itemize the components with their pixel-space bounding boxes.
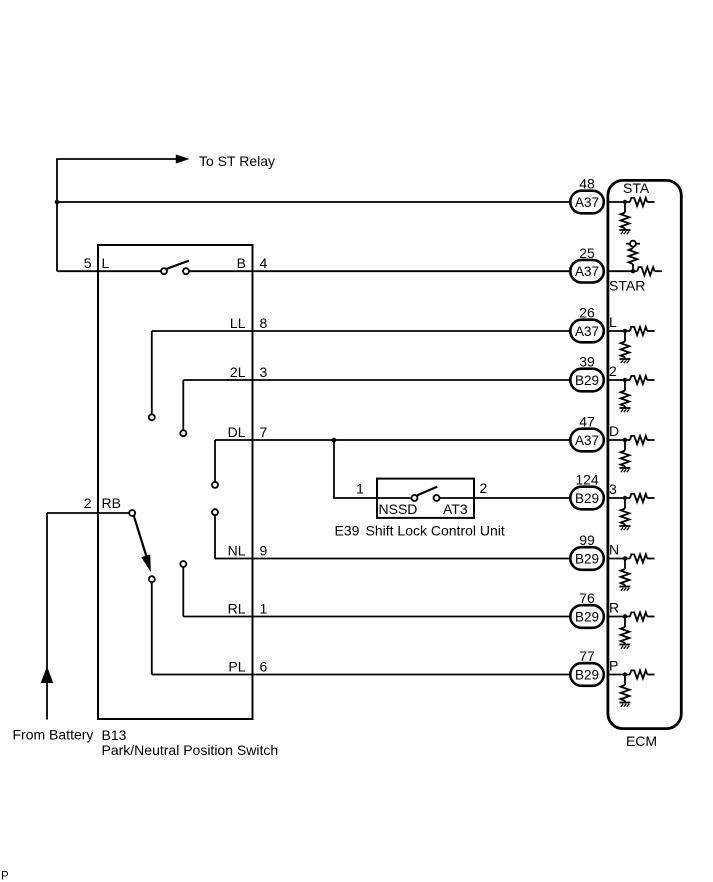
- arrow From Battery: [41, 666, 54, 683]
- wire ECM internal row pin 99: [607, 558, 631, 560]
- node ECM junction pin 47: [623, 438, 627, 442]
- terminal NSSD label: [379, 501, 418, 517]
- pin 99 number: [579, 532, 595, 548]
- switch contact PL: [149, 576, 155, 582]
- svg-text:77: 77: [579, 648, 595, 664]
- switch contact LL: [149, 414, 155, 420]
- connector A37 pin 48: [570, 191, 604, 214]
- wire ECM internal row pin 124: [607, 497, 631, 499]
- svg-text:99: 99: [579, 532, 595, 548]
- svg-text:ECM: ECM: [626, 733, 657, 749]
- terminal STA label ECM: [623, 180, 650, 196]
- svg-text:B29: B29: [575, 491, 599, 506]
- switch lever L-B: [167, 261, 189, 269]
- wire From Battery vertical: [46, 513, 48, 720]
- switch contact right (B): [183, 268, 189, 274]
- svg-text:AT3: AT3: [443, 501, 468, 517]
- label ECM: [626, 733, 657, 749]
- svg-text:B13: B13: [102, 727, 127, 743]
- wire From Battery to RB contact: [47, 512, 129, 514]
- resistor ECM pulldown pin 48: [621, 202, 630, 230]
- label B13: [102, 727, 127, 743]
- resistor ECM series pin 39: [630, 376, 655, 384]
- wire ECM internal row pin 39: [607, 379, 631, 381]
- node ECM junction pin 26: [623, 329, 627, 333]
- wire RL vertical branch: [182, 567, 184, 616]
- wire DL to shift lock pin 1: [334, 440, 376, 498]
- switch contact 2L: [180, 430, 186, 436]
- terminal PL label: [228, 659, 245, 675]
- node ECM junction pin 124: [623, 496, 627, 500]
- terminal P label ECM: [609, 658, 618, 674]
- wire ECM internal row pin 47: [607, 439, 631, 441]
- node STAR supply terminal circle: [626, 241, 640, 247]
- wire ECM internal row pin 25: [607, 270, 634, 272]
- svg-text:39: 39: [579, 354, 595, 370]
- pin 4 label: [260, 255, 268, 271]
- resistor ECM pulldown pin 124: [621, 498, 630, 526]
- connector A37 pin 25: [570, 260, 604, 283]
- svg-text:STAR: STAR: [609, 278, 645, 294]
- switch contact NSSD: [412, 495, 418, 501]
- terminal B label: [237, 255, 246, 271]
- IC ECM box: [608, 180, 681, 728]
- svg-text:NSSD: NSSD: [379, 501, 418, 517]
- terminal D label ECM: [609, 423, 619, 439]
- pin 6 label: [260, 659, 268, 675]
- pin 76 number: [579, 590, 595, 606]
- svg-text:2: 2: [480, 480, 488, 496]
- pin 2 label: [84, 495, 92, 511]
- connector B29 pin 77: [570, 663, 604, 686]
- resistor ECM series pin 99: [630, 554, 655, 562]
- svg-text:N: N: [609, 542, 619, 558]
- wire to ST Relay: [57, 159, 178, 271]
- page marker P: [1, 871, 9, 882]
- ground pin 77: [619, 703, 630, 707]
- svg-text:3: 3: [260, 364, 268, 380]
- pin 25 number: [579, 245, 595, 261]
- pin 7 label: [260, 424, 268, 440]
- pin 124 number: [575, 472, 599, 488]
- wire DL row to ECM: [215, 439, 571, 441]
- svg-text:From Battery: From Battery: [13, 727, 94, 743]
- label To ST Relay: [199, 153, 275, 169]
- terminal R label ECM: [609, 600, 619, 616]
- node DL junction: [332, 438, 337, 443]
- wire shift lock internal left: [377, 497, 411, 499]
- wire ECM internal row pin 76: [607, 616, 631, 618]
- terminal LL label: [230, 315, 246, 331]
- terminal STAR label ECM: [609, 278, 645, 294]
- wire 2L row to ECM: [183, 379, 571, 381]
- terminal L label ECM: [609, 314, 617, 330]
- wire STA row to ECM pin 48: [57, 201, 571, 203]
- box E39 Shift Lock Control Unit: [377, 479, 474, 518]
- svg-text:NL: NL: [228, 543, 246, 559]
- svg-text:48: 48: [579, 176, 595, 192]
- node ECM junction pin 48: [623, 200, 627, 204]
- wire DL vertical branch: [214, 440, 216, 482]
- ground pin 26: [619, 359, 630, 363]
- wire ECM internal row pin 77: [607, 674, 631, 676]
- resistor ECM pulldown pin 76: [621, 617, 630, 645]
- pin 8 label: [260, 315, 268, 331]
- wire ECM internal row pin 26: [607, 330, 631, 332]
- switch contact left (L): [161, 268, 167, 274]
- ground pin 124: [619, 526, 630, 530]
- terminal 2L label: [230, 364, 246, 380]
- svg-text:1: 1: [260, 601, 268, 617]
- ground pin 48: [619, 230, 630, 234]
- pin 1 label: [260, 601, 268, 617]
- resistor ECM series pin 77: [630, 670, 655, 678]
- svg-text:P: P: [1, 871, 9, 882]
- wire switch contact B to ECM pin 25: [189, 270, 571, 272]
- svg-text:5: 5: [84, 255, 92, 271]
- pin 3 label: [260, 364, 268, 380]
- wire ECM internal row pin 48: [607, 201, 631, 203]
- ground pin 47: [619, 468, 630, 472]
- svg-text:3: 3: [609, 481, 617, 497]
- terminal AT3 label: [443, 501, 468, 517]
- resistor ECM pulldown pin 99: [621, 559, 630, 587]
- terminal RL label: [228, 601, 246, 617]
- switch contact RL: [180, 561, 186, 567]
- svg-text:8: 8: [260, 315, 268, 331]
- node ECM junction pin 25: [631, 269, 635, 273]
- pin 5 label: [84, 255, 92, 271]
- arrow to ST Relay: [176, 155, 190, 164]
- switch contact DL: [212, 482, 218, 488]
- svg-text:2: 2: [609, 363, 617, 379]
- svg-text:B29: B29: [575, 551, 599, 566]
- switch contact NL: [212, 509, 218, 515]
- node ECM junction pin 99: [623, 556, 627, 560]
- svg-text:To ST Relay: To ST Relay: [199, 153, 275, 169]
- pin 26 number: [579, 305, 595, 321]
- svg-text:LL: LL: [230, 315, 246, 331]
- connector B29 pin 99: [570, 547, 604, 570]
- node ECM junction pin 76: [623, 614, 627, 618]
- svg-text:47: 47: [579, 414, 595, 430]
- wire RL row to ECM: [183, 616, 571, 618]
- label Park/Neutral Position Switch: [102, 742, 279, 758]
- connector A37 pin 47: [570, 429, 604, 452]
- terminal NL label: [228, 543, 246, 559]
- svg-text:25: 25: [579, 245, 595, 261]
- pin 2 label shift lock: [480, 480, 488, 496]
- terminal L label: [102, 255, 110, 271]
- svg-text:STA: STA: [623, 180, 650, 196]
- pin 1 label shift lock: [356, 481, 364, 497]
- switch contact RB: [129, 510, 135, 516]
- svg-text:R: R: [609, 600, 619, 616]
- switch B13 Park/Neutral Position Switch box: [98, 245, 253, 719]
- wire LL vertical branch: [151, 331, 153, 414]
- label From Battery: [13, 727, 94, 743]
- svg-text:DL: DL: [228, 424, 246, 440]
- connector A37 pin 26: [570, 320, 604, 343]
- resistor ECM pullup pin 25: [629, 247, 638, 272]
- wire pin5 L to switch contact: [57, 270, 161, 272]
- svg-text:D: D: [609, 423, 619, 439]
- wire shift lock internal right: [440, 497, 474, 499]
- resistor ECM pulldown pin 47: [621, 440, 630, 468]
- svg-text:RL: RL: [228, 601, 246, 617]
- svg-text:4: 4: [260, 255, 268, 271]
- svg-text:A37: A37: [575, 264, 599, 279]
- label Shift Lock Control Unit: [366, 523, 505, 539]
- wire PL row to ECM: [152, 674, 571, 676]
- resistor ECM series pin 76: [630, 612, 655, 620]
- svg-text:Park/Neutral Position Switch: Park/Neutral Position Switch: [102, 742, 279, 758]
- svg-text:9: 9: [260, 543, 268, 559]
- svg-text:2L: 2L: [230, 364, 246, 380]
- svg-text:Shift Lock Control Unit: Shift Lock Control Unit: [366, 523, 505, 539]
- resistor ECM pulldown pin 77: [621, 675, 630, 703]
- ground pin 76: [619, 645, 630, 649]
- wire PL vertical branch: [151, 582, 153, 674]
- wire 2L vertical branch: [182, 380, 184, 430]
- ground pin 39: [619, 408, 630, 412]
- wire NL vertical branch: [214, 515, 216, 558]
- svg-text:2: 2: [84, 495, 92, 511]
- terminal DL label: [228, 424, 246, 440]
- pin 77 number: [579, 648, 595, 664]
- svg-text:6: 6: [260, 659, 268, 675]
- svg-text:124: 124: [575, 472, 599, 488]
- resistor ECM series pin 26: [630, 327, 655, 335]
- terminal 3 label ECM: [609, 481, 617, 497]
- resistor ECM pulldown pin 26: [621, 331, 630, 359]
- wire shift lock pin 2 to ECM pin 124: [475, 497, 571, 499]
- terminal RB label: [102, 495, 121, 511]
- pin 9 label: [260, 543, 268, 559]
- svg-text:7: 7: [260, 424, 268, 440]
- terminal 2 label ECM: [609, 363, 617, 379]
- svg-text:PL: PL: [228, 659, 245, 675]
- wire LL row to ECM: [152, 330, 571, 332]
- pin 48 number: [579, 176, 595, 192]
- resistor ECM series pin 124: [630, 494, 655, 502]
- svg-text:L: L: [609, 314, 617, 330]
- label E39: [335, 523, 360, 539]
- switch lever RB wiper: [134, 516, 151, 572]
- svg-text:RB: RB: [102, 495, 121, 511]
- svg-text:A37: A37: [575, 324, 599, 339]
- connector B29 pin 76: [570, 605, 604, 628]
- svg-text:B29: B29: [575, 609, 599, 624]
- wire NL row to ECM: [215, 558, 571, 560]
- svg-text:26: 26: [579, 305, 595, 321]
- svg-text:A37: A37: [575, 433, 599, 448]
- node ECM junction pin 39: [623, 378, 627, 382]
- connector B29 pin 39: [570, 369, 604, 392]
- connector B29 pin 124: [570, 487, 604, 510]
- node junction at ST relay branch: [55, 200, 60, 205]
- svg-text:P: P: [609, 658, 618, 674]
- svg-text:B29: B29: [575, 667, 599, 682]
- svg-text:76: 76: [579, 590, 595, 606]
- resistor ECM series pin 48: [630, 198, 655, 206]
- node ECM junction pin 77: [623, 672, 627, 676]
- resistor ECM pulldown pin 39: [621, 380, 630, 408]
- ground pin 99: [619, 587, 630, 591]
- pin 47 number: [579, 414, 595, 430]
- switch contact AT3: [434, 495, 440, 501]
- resistor ECM series pin 25: [633, 267, 662, 275]
- svg-text:E39: E39: [335, 523, 360, 539]
- svg-text:A37: A37: [575, 195, 599, 210]
- terminal N label ECM: [609, 542, 619, 558]
- svg-text:B29: B29: [575, 373, 599, 388]
- svg-text:B: B: [237, 255, 246, 271]
- pin 39 number: [579, 354, 595, 370]
- switch lever NSSD-AT3: [417, 487, 437, 496]
- svg-text:L: L: [102, 255, 110, 271]
- resistor ECM series pin 47: [630, 436, 655, 444]
- svg-text:1: 1: [356, 481, 364, 497]
